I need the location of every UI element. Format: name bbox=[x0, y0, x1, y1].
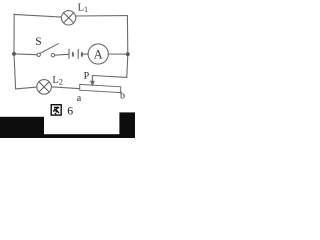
ammeter A1 bbox=[88, 44, 108, 64]
wire bottom-left to L2 bbox=[16, 87, 37, 89]
lamp L2 bbox=[37, 80, 52, 95]
wire top-right segment bbox=[76, 15, 128, 17]
svg-text:P: P bbox=[84, 71, 90, 82]
scan artifact: bottom-right black block bbox=[119, 112, 135, 138]
wire ammeter to node-right bbox=[108, 53, 127, 55]
lamp L1 bbox=[61, 11, 75, 25]
battery B1 bbox=[69, 49, 82, 59]
scan artifact: bottom-left black block bbox=[0, 117, 44, 138]
svg-text:A: A bbox=[94, 47, 103, 61]
wire rheostat wiper to right bbox=[92, 76, 126, 78]
wire right vertical lower bbox=[127, 54, 128, 77]
wire switch to battery bbox=[55, 53, 69, 56]
rheostat P body bbox=[80, 84, 121, 92]
caption: 图 glyph drawn as strokes bbox=[51, 105, 61, 115]
node right junction bbox=[126, 52, 130, 56]
svg-text:a: a bbox=[77, 93, 82, 104]
switch S bbox=[37, 43, 59, 57]
svg-text:6: 6 bbox=[67, 104, 73, 118]
svg-text:b: b bbox=[120, 91, 125, 102]
wire L2 to rheostat terminal a bbox=[51, 87, 79, 89]
rheostat P wiper arrow bbox=[91, 76, 94, 86]
svg-text:S: S bbox=[35, 36, 41, 48]
wire left vertical bbox=[14, 14, 16, 89]
node left junction bbox=[12, 52, 16, 56]
wire node-left to switch bbox=[14, 53, 37, 56]
svg-text:L1: L1 bbox=[78, 2, 88, 14]
wire right vertical upper bbox=[126, 16, 128, 55]
wire top-left segment bbox=[14, 14, 61, 17]
wire battery to ammeter bbox=[82, 53, 88, 55]
scan artifact: bottom black strip bbox=[0, 134, 135, 138]
